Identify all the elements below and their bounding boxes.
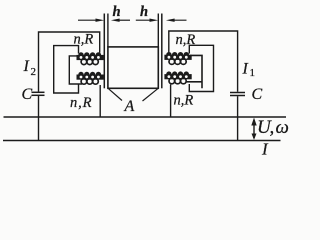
svg-text:A: A [124, 98, 135, 115]
wire: left lower coil to upper bus [99, 85, 101, 117]
svg-text:C: C [252, 86, 263, 103]
right core pole line [161, 14, 163, 89]
pointer line A (right) [143, 89, 158, 101]
wire: upper bus [4, 116, 287, 118]
wire: lower bus [3, 140, 281, 142]
dimension line h (right gap, left segment) [136, 19, 158, 22]
wire: right middle loop [189, 45, 213, 91]
capacitor C (left) [32, 92, 45, 95]
svg-text:I: I [242, 61, 249, 78]
node: source arrow U,omega [251, 118, 256, 140]
svg-text:ω: ω [276, 117, 289, 138]
extension line from armature left edge [107, 14, 109, 47]
svg-text:,: , [270, 117, 275, 138]
coil upper-left n,R [77, 52, 104, 64]
coil lower-left n,R [77, 72, 104, 84]
svg-text:n,R: n,R [176, 32, 196, 48]
svg-text:n,R: n,R [70, 95, 92, 111]
wire: left middle loop [54, 46, 79, 93]
svg-text:h: h [140, 4, 148, 20]
svg-text:C: C [22, 86, 33, 103]
pointer line A (left) [109, 89, 122, 101]
wire: right lower coil to upper bus [170, 85, 172, 118]
svg-text:I: I [23, 58, 30, 75]
wire: right capacitor to lower bus [237, 96, 239, 140]
svg-text:n,R: n,R [74, 31, 94, 47]
wire: left outer loop (top) [39, 32, 100, 92]
svg-text:1: 1 [250, 67, 256, 79]
dimension line h (left gap, right segment) [111, 19, 130, 22]
wire: right inner bracket joining coil pair [190, 55, 202, 88]
svg-text:2: 2 [31, 66, 37, 78]
dimension line h (right gap, right segment) [166, 19, 187, 22]
wire: left capacitor to lower bus [38, 96, 40, 141]
svg-text:h: h [113, 4, 121, 20]
capacitor C (right) [230, 93, 245, 96]
wire: left inner bracket joining coil pair [69, 56, 82, 84]
extension line from armature right edge [157, 14, 159, 47]
coil upper-right n,R [164, 52, 191, 64]
coil lower-right n,R [164, 71, 191, 83]
left core pole line [103, 14, 105, 89]
dimension line h (left gap, left segment) [78, 19, 104, 22]
wire: right outer loop (top) [169, 31, 238, 92]
svg-text:n,R: n,R [174, 93, 194, 109]
armature block A [108, 47, 158, 88]
